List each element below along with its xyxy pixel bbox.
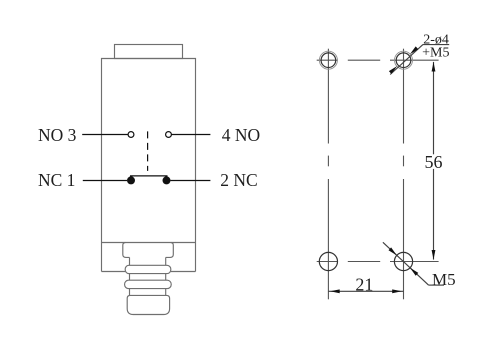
svg-text:NC 1: NC 1 <box>38 170 75 190</box>
svg-text:+M5: +M5 <box>422 46 449 61</box>
svg-text:4 NO: 4 NO <box>222 125 260 145</box>
svg-text:21: 21 <box>355 275 373 295</box>
svg-text:2 NC: 2 NC <box>220 170 257 190</box>
svg-text:56: 56 <box>425 152 443 172</box>
svg-text:M5: M5 <box>432 270 456 289</box>
svg-text:NO 3: NO 3 <box>38 125 77 145</box>
